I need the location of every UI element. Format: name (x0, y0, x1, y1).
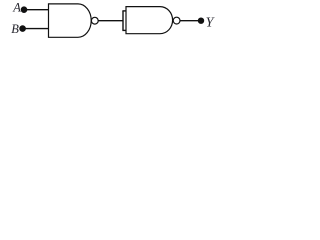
node B terminal dot (19, 25, 26, 32)
input tie vertical wire at U2 (122, 11, 124, 31)
NAND gate U2 body (inverter-connected) (126, 7, 173, 34)
svg-text:B: B (11, 22, 19, 36)
svg-text:A: A (12, 1, 21, 15)
wire from U1 bubble to U2 input tie (98, 20, 123, 22)
node Y terminal dot (198, 18, 204, 24)
node A terminal dot (21, 6, 28, 13)
wire from A to NAND gate U1 input 1 (24, 9, 49, 11)
stub wire to U2 input 2 (122, 29, 126, 31)
NAND gate U1 output inversion bubble (91, 17, 98, 24)
NAND gate U2 output inversion bubble (173, 17, 180, 24)
wire from B to NAND gate U1 input 2 (23, 28, 50, 30)
stub wire to U2 input 1 (122, 10, 126, 12)
NAND gate U1 body (49, 4, 92, 37)
wire from U2 bubble to output Y (180, 20, 201, 22)
